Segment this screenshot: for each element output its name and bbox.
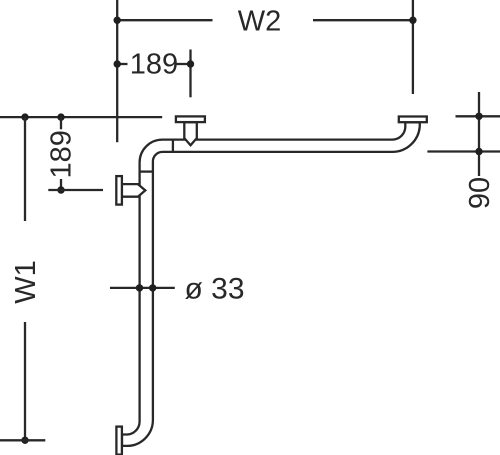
- svg-text:189: 189: [130, 49, 178, 81]
- 189 top dim left tick: [117, 63, 127, 65]
- W2 dimension line right segment: [313, 19, 413, 21]
- svg-text:W2: W2: [238, 6, 282, 38]
- joint tick on horizontal tube: [172, 140, 174, 152]
- svg-text:W1: W1: [10, 260, 42, 304]
- 189 vertical cross tick: [48, 189, 103, 191]
- wall line dot right (189 vert): [57, 113, 64, 120]
- 90 dim top tick: [456, 115, 500, 117]
- W1 bottom tick: [0, 439, 45, 441]
- top mount flange plate: [176, 116, 205, 122]
- 189 vertical dim lower tick: [60, 179, 62, 190]
- 189 vertical bottom dot: [57, 186, 64, 193]
- diameter leader dot right: [149, 284, 156, 291]
- svg-text:189: 189: [45, 130, 77, 178]
- 189 vertical dim upper tick: [60, 117, 62, 129]
- bottom end flange plate: [116, 427, 122, 455]
- 90 dim extension line: [478, 92, 480, 176]
- tube body (L-shaped grab bar outline): [122, 122, 420, 446]
- svg-text:90: 90: [464, 177, 496, 209]
- W2 left dot: [114, 17, 121, 24]
- W2 dimension line left segment: [117, 19, 212, 21]
- 90 top dot: [475, 113, 482, 120]
- W2 right extension line: [412, 0, 414, 94]
- joint tick on vertical tube: [140, 170, 153, 172]
- diameter leader line: [110, 287, 175, 289]
- side mount cone: [122, 184, 145, 197]
- 90 dim bottom line: [427, 150, 500, 152]
- 189 top left dot: [114, 60, 121, 67]
- 90 bottom dot: [475, 148, 482, 155]
- wall reference line: [0, 116, 162, 118]
- 189 top extension line: [189, 50, 191, 98]
- W1 dimension line lower segment: [24, 322, 26, 440]
- 189 top dim right tick: [177, 63, 191, 65]
- W2 right dot: [409, 17, 416, 24]
- 189 top right dot: [187, 60, 194, 67]
- W2 left extension line: [116, 0, 118, 142]
- wall line dot left (W1): [21, 113, 28, 120]
- diameter leader dot left: [136, 284, 143, 291]
- svg-text:ø 33: ø 33: [185, 272, 245, 305]
- side mount flange plate: [116, 176, 122, 205]
- right end flange plate: [399, 117, 427, 123]
- W1 dimension line upper segment: [24, 117, 26, 221]
- top mount cone: [184, 122, 197, 145]
- W1 bottom dot: [21, 437, 28, 444]
